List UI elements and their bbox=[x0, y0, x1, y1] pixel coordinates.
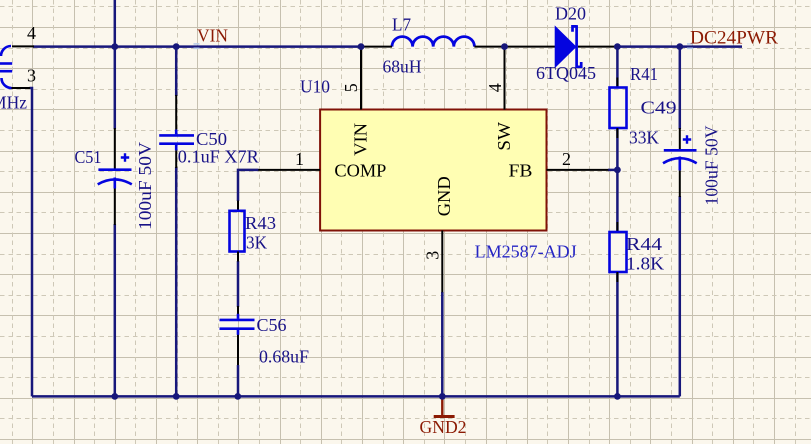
pin 4 stub (SW) bbox=[504, 46, 506, 110]
junction node rail-C56 bbox=[234, 393, 241, 400]
wire C49 branch vertical upper bbox=[679, 46, 682, 129]
pin 2 stub (FB) bbox=[547, 169, 609, 171]
capacitor C51 bbox=[98, 128, 132, 225]
svg-text:VIN: VIN bbox=[197, 26, 228, 46]
svg-text:3: 3 bbox=[423, 251, 443, 260]
capacitor C49 bbox=[663, 128, 697, 197]
svg-text:3K: 3K bbox=[246, 233, 267, 253]
wire C50 branch vertical upper bbox=[175, 46, 178, 96]
svg-text:U10: U10 bbox=[300, 77, 330, 97]
resistor R41 bbox=[610, 78, 627, 139]
svg-text:68uH: 68uH bbox=[383, 57, 422, 77]
svg-text:R43: R43 bbox=[245, 213, 276, 233]
wire bottom rail bbox=[32, 395, 680, 398]
pin 3 stub of transformer T bbox=[11, 87, 30, 89]
svg-text:100uF 50V: 100uF 50V bbox=[702, 126, 722, 206]
net label VIN anchor mark bbox=[194, 44, 200, 48]
transformer winding fragment bbox=[0, 46, 12, 88]
junction node C49 top bbox=[676, 43, 683, 50]
wire FB node to R44 bbox=[616, 170, 619, 232]
resistor R44 bbox=[610, 222, 627, 282]
wire R44 to rail bbox=[616, 272, 619, 396]
junction node D20-R41 bbox=[614, 43, 621, 50]
wire top rail right bbox=[617, 45, 742, 48]
junction node rail-C51 bbox=[111, 393, 118, 400]
svg-text:LM2587-ADJ: LM2587-ADJ bbox=[475, 242, 577, 262]
wire R41 to FB node bbox=[616, 128, 619, 170]
pin 5 stub (VIN) bbox=[360, 46, 362, 110]
wire COMP to R43 bbox=[238, 170, 259, 201]
pin 4 stub of transformer T bbox=[12, 45, 34, 47]
pin 3 stub (GND) bbox=[441, 231, 443, 293]
svg-text:4: 4 bbox=[27, 23, 36, 43]
pin stub L7 left bbox=[361, 46, 392, 48]
svg-text:4: 4 bbox=[485, 83, 505, 92]
wire FB branch bbox=[608, 169, 617, 172]
junction node VIN-L7 bbox=[358, 43, 365, 50]
junction node VIN-C51 bbox=[111, 43, 118, 50]
svg-text:R44: R44 bbox=[626, 234, 662, 254]
wire left vertical from pin 3 bbox=[30, 88, 33, 396]
capacitor C50 bbox=[159, 95, 194, 168]
svg-text:1.8K: 1.8K bbox=[626, 254, 664, 274]
wire C51 branch vertical lower bbox=[114, 224, 117, 396]
junction node SW-L7 bbox=[501, 43, 508, 50]
svg-text:VIN: VIN bbox=[351, 123, 371, 156]
svg-text:DC24PWR: DC24PWR bbox=[690, 29, 779, 49]
svg-text:C49: C49 bbox=[641, 98, 677, 118]
junction node VIN-C50 bbox=[173, 43, 180, 50]
wire R43 to C56 bbox=[237, 261, 240, 307]
svg-text:GND2: GND2 bbox=[420, 417, 467, 437]
wire C51 branch vertical upper bbox=[114, 0, 117, 129]
svg-text:COMP: COMP bbox=[334, 160, 386, 180]
pin stub L7 right bbox=[474, 46, 505, 48]
svg-text:0.68uF: 0.68uF bbox=[259, 347, 309, 367]
wire C56 to rail bbox=[237, 335, 239, 367]
wire GND branch vertical bbox=[441, 292, 444, 396]
wire C49 branch vertical lower bbox=[679, 196, 682, 396]
svg-text:5: 5 bbox=[341, 83, 361, 92]
svg-text:1: 1 bbox=[295, 149, 304, 169]
svg-text:3: 3 bbox=[27, 66, 36, 86]
capacitor C56 bbox=[220, 311, 255, 335]
svg-text:SW: SW bbox=[494, 122, 514, 151]
net label DC24PWR anchor mark bbox=[687, 44, 693, 48]
resistor R43 bbox=[230, 201, 245, 262]
svg-text:D20: D20 bbox=[555, 3, 586, 23]
svg-text:33K: 33K bbox=[629, 128, 659, 148]
svg-text:C51: C51 bbox=[75, 147, 102, 167]
svg-text:R41: R41 bbox=[630, 64, 658, 84]
svg-text:C56: C56 bbox=[257, 315, 287, 335]
svg-text:GND: GND bbox=[434, 176, 454, 216]
pin 1 stub (COMP) bbox=[258, 169, 320, 171]
junction node rail-C50 bbox=[173, 393, 180, 400]
inductor L7 bbox=[392, 37, 474, 47]
diode D20 (schottky) bbox=[505, 25, 617, 68]
svg-text:MHz: MHz bbox=[0, 93, 27, 113]
svg-text:2: 2 bbox=[562, 149, 571, 169]
svg-text:L7: L7 bbox=[392, 15, 411, 35]
power port GND2 bbox=[434, 396, 455, 416]
junction node FB-R41-R44 bbox=[614, 167, 621, 174]
svg-text:0.1uF X7R: 0.1uF X7R bbox=[178, 147, 259, 167]
svg-text:6TQ045: 6TQ045 bbox=[536, 63, 596, 83]
svg-text:FB: FB bbox=[509, 160, 533, 180]
op IC U10 body bbox=[320, 110, 546, 231]
svg-text:100uF 50V: 100uF 50V bbox=[135, 142, 155, 230]
junction node rail-R44 bbox=[614, 393, 621, 400]
junction node rail-GND bbox=[439, 393, 446, 400]
wire top rail left bbox=[33, 45, 361, 48]
wire C50 branch vertical lower bbox=[175, 167, 178, 396]
wire top to R41 bbox=[616, 46, 619, 88]
